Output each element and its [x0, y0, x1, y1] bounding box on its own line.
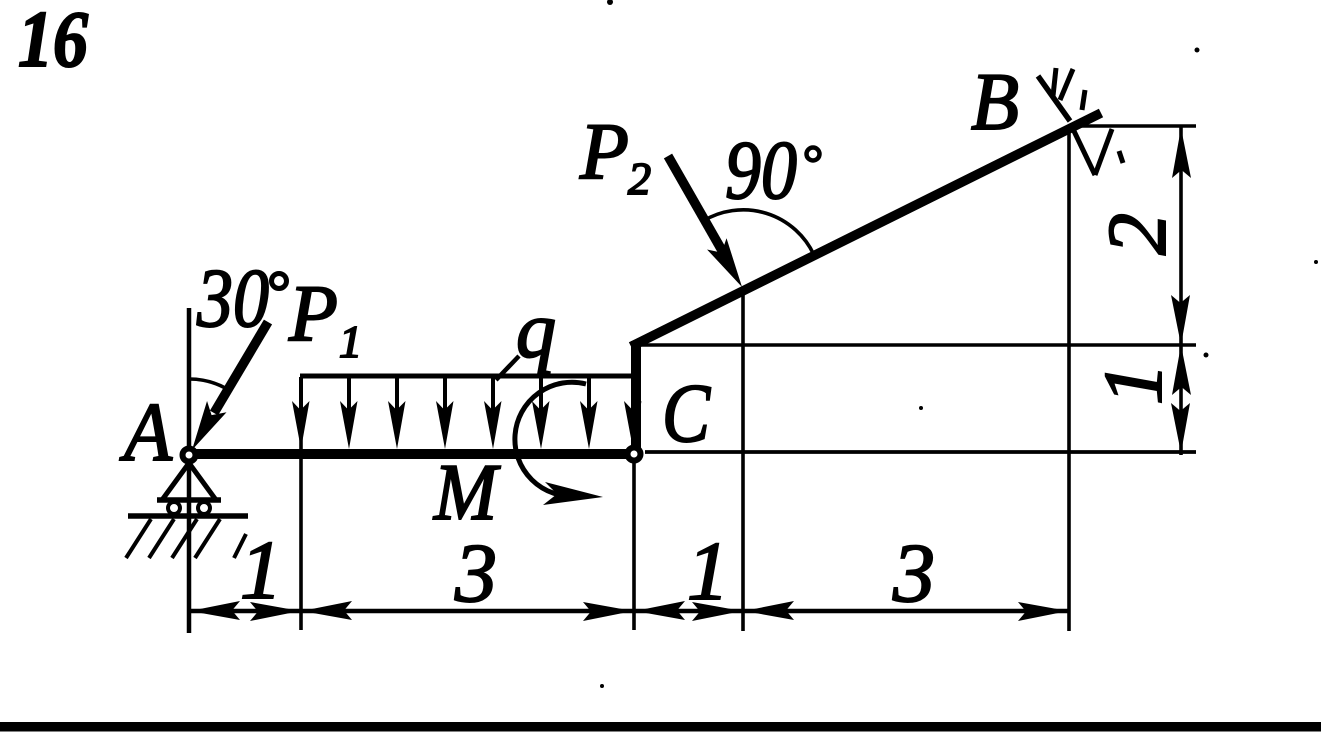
svg-text:2: 2	[628, 153, 651, 204]
force P1 line	[214, 322, 268, 413]
bottom dim arrows segment 1	[190, 601, 240, 620]
svg-text:2: 2	[1091, 213, 1184, 255]
support A triangle	[162, 463, 216, 500]
load arrow 8	[624, 401, 642, 449]
svg-text:16: 16	[18, 0, 88, 84]
horizontal line at corner level	[641, 343, 1196, 347]
right dim arrow bottom down	[1171, 403, 1190, 453]
speck 4	[607, 0, 613, 5]
svg-text:A: A	[119, 386, 172, 479]
svg-text:C: C	[662, 367, 711, 460]
beam AC	[191, 449, 639, 459]
support B tick	[1119, 151, 1123, 163]
distributed load top line	[300, 374, 637, 379]
speck 6	[1314, 260, 1318, 264]
bottom dim arrows segment 3	[635, 601, 685, 620]
force P2 arrowhead	[707, 238, 751, 293]
inclined member to B	[631, 113, 1101, 347]
support B hatch 5	[1073, 129, 1095, 175]
moment M arrowhead	[543, 482, 603, 505]
90 deg arc	[703, 210, 814, 255]
support B hatch 3	[1060, 69, 1073, 100]
extension line below B	[1067, 128, 1071, 631]
force P2 line	[668, 156, 724, 254]
support A hatch 1	[126, 519, 151, 558]
right dimension line vertical	[1179, 126, 1183, 455]
support A hatch 3	[172, 519, 197, 558]
load arrow 2	[347, 377, 351, 414]
support A hatch 4	[195, 519, 220, 558]
bottom dim arrows segment 2	[302, 601, 352, 620]
moment M arc	[515, 382, 586, 496]
support A base line	[157, 497, 221, 503]
svg-text:90: 90	[725, 124, 797, 217]
30 deg arc	[189, 379, 227, 389]
support B hatch 4	[1082, 90, 1085, 110]
load arrow 5	[491, 377, 495, 414]
support B hatch 6	[1095, 129, 1112, 175]
support A roller right	[198, 502, 210, 514]
svg-text:1: 1	[240, 524, 282, 617]
svg-text:3: 3	[892, 527, 935, 620]
horizontal line at beam level right	[645, 450, 1196, 454]
riser at C	[631, 341, 641, 459]
svg-text:q: q	[516, 287, 556, 375]
bottom black bar	[0, 722, 1321, 732]
q leader line	[496, 356, 519, 380]
svg-text:1: 1	[687, 525, 729, 618]
bottom dim arrows segment 4	[744, 601, 794, 620]
svg-text:1: 1	[1087, 363, 1180, 405]
load arrow 1	[299, 377, 303, 414]
support A roller left	[168, 502, 180, 514]
svg-text:P: P	[579, 108, 629, 196]
extension line at P2 point	[741, 291, 745, 631]
support A ground line	[128, 513, 248, 519]
right dim arrow top up	[1172, 128, 1191, 178]
svg-text:M: M	[433, 449, 501, 537]
extension line below load left	[299, 378, 303, 630]
speck 1	[600, 684, 604, 688]
support B hatch 1	[1038, 76, 1070, 121]
speck 3	[1195, 48, 1200, 53]
speck 2	[919, 406, 923, 410]
support B hatch 2	[1053, 68, 1056, 96]
load arrow 6	[539, 377, 543, 414]
pin at C	[628, 448, 641, 461]
load arrow 4	[443, 377, 447, 414]
svg-text:P: P	[288, 270, 338, 358]
svg-text:3: 3	[454, 527, 497, 620]
right dim arrows middle	[1171, 295, 1190, 345]
support A hatch 2	[149, 519, 174, 558]
horizontal line at B level	[1072, 124, 1196, 128]
svg-text:1: 1	[339, 316, 362, 367]
extension line at A (vertical reference for 30 deg)	[187, 308, 192, 633]
speck 5	[1204, 353, 1209, 358]
support A hatch 5	[234, 534, 246, 558]
svg-text:B: B	[971, 56, 1019, 147]
pin at A	[183, 449, 196, 462]
bottom dimension line	[189, 609, 1069, 614]
force P1 arrowhead	[182, 401, 226, 456]
extension line below C	[632, 461, 636, 630]
load arrow 3	[395, 377, 399, 414]
load arrow 7	[587, 377, 591, 414]
